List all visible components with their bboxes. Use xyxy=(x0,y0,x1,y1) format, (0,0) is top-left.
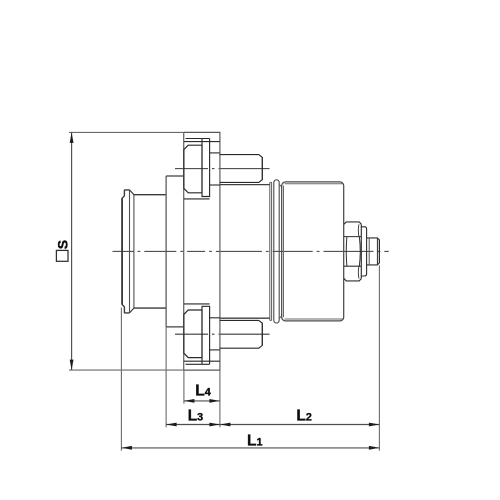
collar bottom edge xyxy=(166,326,184,328)
L4 arrow left xyxy=(184,399,195,403)
S dim extension bottom xyxy=(69,369,184,371)
mid tube bottom edge xyxy=(220,317,270,319)
top bolt line A washer top xyxy=(186,138,210,140)
stub shaft xyxy=(367,238,380,265)
bottom bolt shank top xyxy=(210,317,220,319)
stub end cap xyxy=(378,240,380,263)
bead ring xyxy=(274,180,279,323)
hex nut facet line upper xyxy=(344,236,361,238)
L2 arrow left xyxy=(220,423,231,427)
L4 dimension line xyxy=(184,400,220,402)
hex nut top facet arc xyxy=(357,224,360,236)
S arrow up xyxy=(70,132,74,143)
collar left edge xyxy=(165,176,167,327)
bead to cylinder curve bottom xyxy=(279,314,282,318)
hex nut bottom edge xyxy=(344,278,361,281)
bottom bolt line B xyxy=(184,360,220,362)
bottom bolt shaft xyxy=(220,320,262,348)
top bolt lower line xyxy=(184,198,210,200)
cylinder body rounded outline xyxy=(282,182,344,321)
L1 arrow right xyxy=(369,446,380,450)
flange plate left edge xyxy=(183,132,185,370)
centerline top bolt xyxy=(175,168,270,170)
top bolt washer xyxy=(202,139,210,197)
tube bottom edge xyxy=(134,307,166,309)
hex nut facet line lower xyxy=(344,265,361,267)
L1 dimension line xyxy=(121,447,379,449)
gasket ring xyxy=(270,182,272,320)
top bolt line B xyxy=(184,141,220,143)
tube top edge xyxy=(134,194,166,196)
centerline main axis xyxy=(113,250,389,252)
cylinder top chamfer line xyxy=(285,183,343,185)
L3 dimension line xyxy=(166,424,220,426)
stub relief line xyxy=(368,238,370,265)
S label square xyxy=(56,250,68,261)
stub chamfer line xyxy=(376,238,378,265)
hex nut bottom facet arc xyxy=(357,266,360,278)
S dimension line xyxy=(71,132,73,370)
hex nut chamfer arc left xyxy=(345,237,348,267)
top bolt shank top xyxy=(210,152,220,154)
flange plate bottom edge xyxy=(184,369,221,371)
hex nut right edge xyxy=(360,224,362,278)
centerline bottom bolt xyxy=(175,333,270,335)
cylinder left inner line xyxy=(283,186,285,318)
L2 arrow right xyxy=(369,423,380,427)
L4 arrow right xyxy=(209,399,220,403)
collar top edge xyxy=(166,175,184,177)
hex nut top edge xyxy=(344,222,361,225)
bottom bolt shaft end cap xyxy=(261,323,263,345)
ext line ferrule face xyxy=(120,308,122,451)
bead to cylinder curve top xyxy=(279,185,282,189)
svg-text:S: S xyxy=(55,240,71,249)
nut flange washer xyxy=(361,227,366,276)
ext line plate right xyxy=(219,370,221,427)
L1 arrow left xyxy=(121,446,131,450)
top bolt shank bottom xyxy=(210,184,220,186)
ext line collar xyxy=(165,327,167,427)
ferrule lip outer face emphasis xyxy=(121,199,123,305)
ferrule bottom chamfer xyxy=(130,308,134,313)
bottom bolt line A washer bottom xyxy=(186,363,210,365)
S dim extension top xyxy=(69,131,184,133)
L3 arrow right xyxy=(209,423,220,427)
top bolt shaft xyxy=(220,155,262,183)
bottom bolt nut xyxy=(184,310,202,358)
mid tube top edge xyxy=(220,184,270,186)
hex nut chamfer arc right xyxy=(358,237,361,267)
S arrow down xyxy=(70,360,74,371)
top bolt nut xyxy=(184,145,202,193)
bottom bolt washer xyxy=(202,306,210,364)
ferrule lip inner line xyxy=(129,190,131,313)
L3 arrow left xyxy=(166,423,177,427)
ferrule weld line xyxy=(133,195,135,308)
L2 dimension line xyxy=(220,424,380,426)
ferrule top chamfer xyxy=(130,190,134,195)
flange plate top edge xyxy=(184,131,221,133)
ext line stub end xyxy=(378,265,380,450)
ferrule lip outline xyxy=(122,190,129,313)
ext line plate left xyxy=(183,370,185,404)
flange plate right edge xyxy=(219,132,221,370)
bottom bolt lower line xyxy=(184,303,210,305)
top bolt shaft end cap xyxy=(261,157,263,179)
bottom bolt shank bottom xyxy=(210,349,220,351)
cylinder bottom chamfer line xyxy=(285,318,343,320)
